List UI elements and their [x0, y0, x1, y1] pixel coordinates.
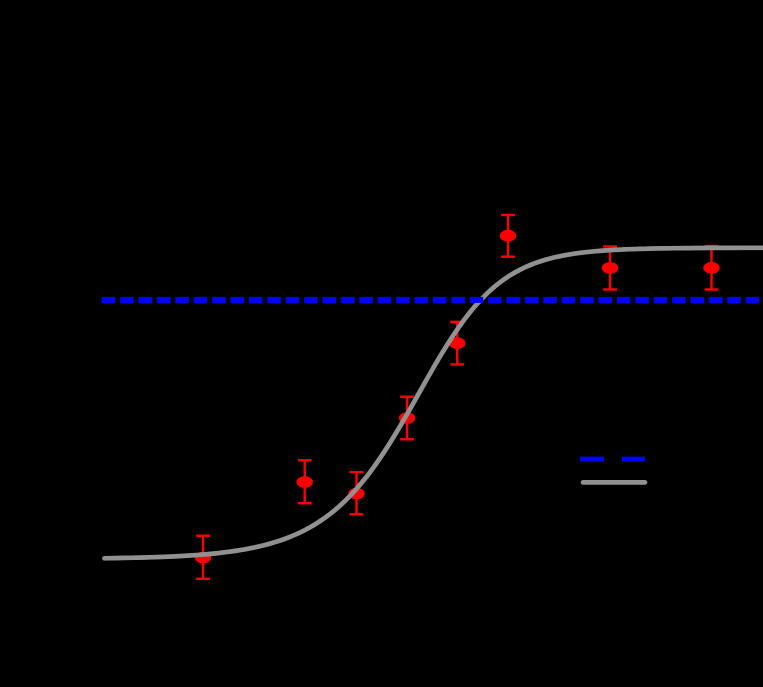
legend sample: blue dashed line [580, 457, 645, 462]
legend sample: gray solid line [583, 480, 645, 485]
error bar point 8 [705, 246, 719, 290]
marker point 2 [297, 476, 313, 488]
error bars group (red, drawn under curve) [196, 215, 718, 579]
marker point 7 [602, 262, 618, 274]
error bar point 5 [450, 322, 464, 365]
threshold line (blue dashed, on top) [102, 297, 763, 303]
error bar point 7 [603, 247, 617, 290]
marker point 5 [449, 337, 465, 349]
error bar point 4 [400, 397, 414, 440]
error bar point 2 [298, 460, 312, 503]
error bar point 3 [350, 472, 364, 514]
marker point 1 [195, 552, 211, 564]
marker point 6 [500, 230, 516, 242]
data markers (red ellipses) [195, 230, 720, 563]
marker point 8 [703, 262, 719, 274]
marker point 3 [348, 488, 364, 500]
error bar point 6 [501, 215, 515, 257]
marker point 4 [399, 412, 415, 424]
error bar point 1 [196, 536, 210, 579]
fitted sigmoid curve (gray) [105, 248, 763, 559]
